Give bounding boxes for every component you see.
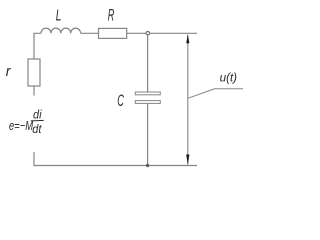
arrowhead down: [186, 155, 189, 165]
wire top-left corner to inductor: [34, 33, 41, 59]
wire capacitor branch upper: [147, 34, 149, 92]
resistor R: [99, 28, 127, 38]
wire inductor to R: [81, 32, 99, 34]
leader line to u(t): [188, 89, 243, 99]
arrowhead up: [186, 34, 189, 43]
svg-text:C: C: [117, 91, 124, 110]
inductor L: [41, 28, 81, 33]
svg-text:dt: dt: [32, 124, 42, 136]
label e=-M di/dt: [9, 109, 44, 136]
node bottom junction: [146, 164, 149, 167]
voltage arrow line: [187, 35, 189, 165]
svg-text:r: r: [6, 63, 12, 79]
svg-text:R: R: [108, 6, 115, 25]
capacitor C plate 2: [135, 101, 160, 104]
svg-text:e=−M: e=−M: [9, 120, 34, 134]
svg-text:di: di: [33, 109, 42, 121]
wire r bottom stub: [33, 86, 35, 96]
wire capacitor branch lower: [147, 103, 149, 165]
svg-text:u(t): u(t): [220, 70, 238, 84]
node top junction: [146, 31, 150, 35]
wire R to right end: [127, 32, 197, 34]
wire lower-left to bottom corner: [34, 152, 197, 166]
capacitor C plate 1: [135, 92, 160, 95]
svg-text:L: L: [56, 6, 62, 24]
resistor r: [28, 59, 40, 86]
